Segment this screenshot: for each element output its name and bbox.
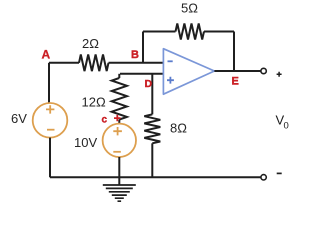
resistor R 2ohm (horizontal zigzag) [79,55,109,72]
ground symbol stem [118,177,120,185]
6V plus sign [46,105,54,113]
op-amp noninverting input symbol [167,77,174,84]
svg-text:D: D [145,78,153,90]
op-amp U1 (triangle) [163,49,214,94]
output minus label [277,172,282,174]
output terminal (open circle, +) [261,68,266,73]
svg-text:2Ω: 2Ω [82,36,99,51]
svg-text:10V: 10V [74,135,97,150]
wire: stub from plus rail down to 12-ohm [118,74,120,78]
wire: stub from plus rail down to 8-ohm [151,74,153,115]
voltage source 6V (circle) [33,103,68,138]
output plus label [277,72,282,77]
10V minus sign [113,151,121,153]
wire: feedback top left segment [143,31,176,33]
svg-text:8Ω: 8Ω [170,121,187,136]
svg-text:0: 0 [284,121,289,132]
resistor R 8ohm (vertical zigzag) [144,114,160,143]
6V minus sign [47,129,55,131]
resistor R 5ohm (feedback, horizontal zigzag) [176,24,205,40]
wire: 8-ohm bottom to ground rail [151,143,153,177]
svg-text:5Ω: 5Ω [181,1,198,16]
resistor R 12ohm (vertical zigzag) [112,78,127,120]
svg-text:B: B [131,49,139,61]
op-amp inverting input symbol [168,60,173,62]
10V plus sign [113,127,122,135]
svg-text:c: c [102,115,108,126]
wire: feedback top right segment [204,31,234,33]
wire: feedback right vertical down to output [233,32,235,72]
bottom terminal (open circle, -) [261,175,266,180]
wire: noninverting input rail (left corner to op-amp) [120,73,163,75]
wire: node A corner to 2-ohm left [49,62,79,64]
ground symbol bars [103,185,136,201]
svg-text:12Ω: 12Ω [82,95,106,110]
red plus above 10V [114,115,121,121]
wire: 12-ohm bottom to 10V source top [118,120,120,125]
wire: vertical from node A down to 6V source [48,63,50,103]
wire: 2-ohm right to op-amp inverting input (node B) [109,62,164,64]
svg-text:E: E [232,76,239,88]
wire: 10V bottom to ground rail [118,157,120,177]
svg-text:6V: 6V [11,111,27,126]
voltage source 10V (circle) [103,124,136,157]
wire: 6V bottom to ground rail [49,138,51,178]
svg-text:A: A [42,48,51,62]
wire: op-amp output to terminal [214,70,261,72]
wire: feedback tap up from node B [142,32,144,63]
wire: bottom ground rail [50,176,261,178]
